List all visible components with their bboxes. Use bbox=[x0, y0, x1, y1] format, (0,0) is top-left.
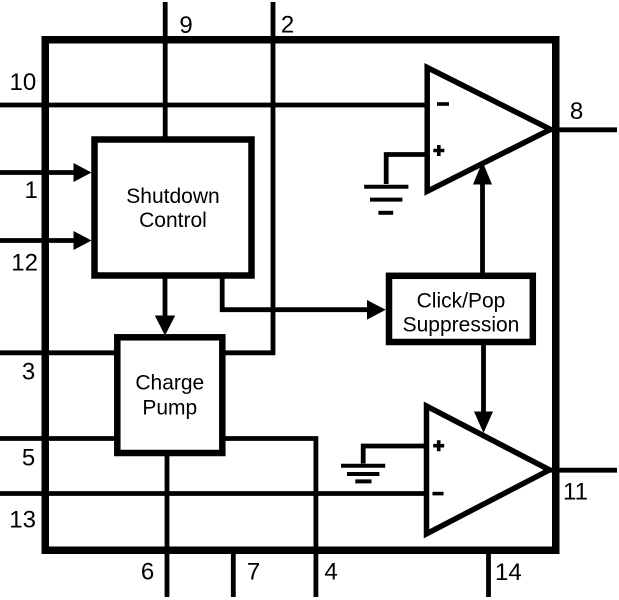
wire pin 7 stub bbox=[231, 547, 236, 597]
wire pin 14 stub bbox=[486, 547, 491, 597]
svg-text:11: 11 bbox=[563, 479, 588, 506]
svg-text:7: 7 bbox=[247, 559, 260, 586]
wire pin 12 into shutdown control bbox=[0, 238, 75, 243]
svg-text:12: 12 bbox=[11, 250, 38, 277]
wire pin 9 vertical bbox=[163, 2, 168, 142]
block Charge Pump bbox=[117, 337, 222, 453]
wire pin 13 to lower op-amp inverting input bbox=[0, 491, 429, 496]
svg-text:5: 5 bbox=[22, 445, 35, 472]
op-amp U1 (upper) bbox=[427, 68, 550, 192]
svg-text:Control: Control bbox=[139, 209, 207, 232]
svg-text:13: 13 bbox=[9, 507, 36, 534]
wire shutdown control to charge pump bbox=[163, 274, 168, 317]
wire pin 10 to upper op-amp inverting input bbox=[0, 103, 428, 108]
arrowhead down to lower op-amp bbox=[474, 412, 493, 434]
svg-text:4: 4 bbox=[324, 559, 337, 586]
wire click/pop to lower op-amp bbox=[481, 340, 486, 412]
arrowhead pin 12 bbox=[74, 231, 92, 250]
wire pin 8 output bbox=[550, 127, 617, 132]
svg-text:10: 10 bbox=[10, 69, 37, 96]
svg-text:Suppression: Suppression bbox=[403, 314, 520, 337]
upper op-amp minus label bbox=[437, 102, 449, 106]
ground (upper) bbox=[364, 187, 408, 213]
svg-text:2: 2 bbox=[281, 12, 294, 39]
svg-text:Click/Pop: Click/Pop bbox=[417, 290, 506, 313]
ground (lower) bbox=[341, 466, 385, 482]
block Click/Pop Suppression bbox=[389, 276, 533, 342]
svg-text:Pump: Pump bbox=[142, 397, 197, 420]
svg-text:6: 6 bbox=[141, 559, 154, 586]
wire pin 3 into charge pump bbox=[0, 350, 125, 355]
outer IC boundary box bbox=[45, 40, 556, 551]
svg-text:1: 1 bbox=[25, 177, 38, 204]
svg-text:14: 14 bbox=[495, 559, 522, 586]
svg-text:3: 3 bbox=[22, 359, 35, 386]
upper op-amp plus label bbox=[433, 145, 444, 156]
wire pin 6 from charge pump bottom bbox=[165, 448, 170, 597]
arrowhead into click/pop suppression bbox=[367, 300, 386, 320]
wire pin 2 vertical + horizontal to charge pump bbox=[222, 2, 273, 353]
op-amp U2 (lower) bbox=[427, 406, 550, 534]
arrowhead pin 1 bbox=[74, 163, 92, 182]
arrowhead into charge pump bbox=[155, 316, 175, 336]
svg-text:9: 9 bbox=[179, 12, 192, 39]
wire pin 5 through charge pump down to pin 4 bbox=[0, 439, 316, 598]
lower op-amp plus label bbox=[433, 440, 444, 451]
arrowhead up to upper op-amp bbox=[473, 162, 492, 185]
svg-text:Shutdown: Shutdown bbox=[126, 185, 219, 208]
wire pin 11 output bbox=[547, 468, 617, 473]
block Shutdown Control bbox=[95, 140, 252, 276]
wire pin 1 into shutdown control bbox=[0, 170, 75, 175]
wire shutdown control to click/pop suppression bbox=[222, 274, 368, 310]
wire upper op-amp + input to ground bbox=[386, 155, 428, 185]
lower op-amp minus label bbox=[433, 492, 444, 496]
wire click/pop to upper op-amp bbox=[480, 184, 485, 278]
svg-text:Charge: Charge bbox=[135, 372, 204, 395]
svg-text:8: 8 bbox=[570, 98, 583, 125]
wire lower op-amp + input to ground bbox=[363, 446, 428, 464]
